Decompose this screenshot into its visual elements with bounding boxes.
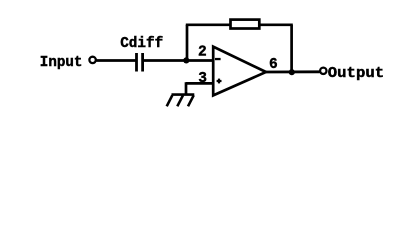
svg-text:3: 3: [198, 71, 207, 87]
pin 6 label: [269, 57, 278, 73]
input terminal: [89, 57, 95, 63]
label Output: [328, 66, 384, 82]
resistor RF: [231, 20, 260, 29]
wire output: [265, 70, 320, 73]
node junction at output: [289, 69, 295, 75]
output terminal: [320, 68, 326, 74]
pin 3 label: [198, 71, 207, 87]
node junction at inverting input: [183, 57, 189, 63]
wire capacitor to op-amp inverting input: [144, 59, 214, 62]
wire feedback vertical left: [186, 25, 189, 61]
svg-text:Input: Input: [40, 55, 83, 71]
pin 2 label: [198, 45, 207, 61]
capacitor Cdiff: [137, 53, 143, 72]
wire pin3 to ground: [186, 82, 214, 94]
ground: [167, 95, 195, 107]
label Input: [40, 55, 83, 71]
svg-text:Cdiff: Cdiff: [120, 36, 163, 52]
wire input to capacitor: [97, 59, 136, 62]
plus sign at non-inverting input: [217, 79, 222, 84]
op-amp U1: [213, 47, 266, 96]
minus sign at inverting input: [215, 58, 221, 60]
svg-text:2: 2: [198, 45, 207, 61]
wire feedback vertical right: [290, 25, 293, 72]
wire feedback top left: [186, 23, 231, 26]
svg-text:Output: Output: [328, 66, 384, 82]
label Cdiff: [120, 36, 163, 52]
wire feedback top right: [260, 23, 293, 26]
